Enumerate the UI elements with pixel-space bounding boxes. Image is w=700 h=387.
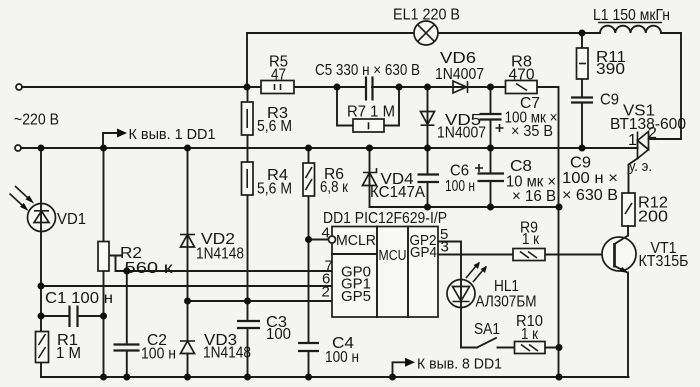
wire top mains line y=87 [22, 86, 559, 88]
svg-text:560 к: 560 к [125, 260, 174, 277]
svg-text:1N4148: 1N4148 [203, 345, 251, 362]
wire GP1 pin6 line [41, 285, 332, 287]
svg-text:5,6 М: 5,6 М [257, 181, 292, 198]
wire R11/C9 column [581, 33, 583, 148]
svg-text:C8: C8 [510, 158, 532, 175]
wire VD4 column [369, 148, 371, 207]
resistor R1 [36, 332, 82, 363]
svg-text:DD1 PIC12F629-I/P: DD1 PIC12F629-I/P [323, 210, 447, 227]
capacitor C5 [315, 62, 420, 101]
label К выв. 8 DD1 [393, 356, 503, 378]
svg-text:К выв. 8 DD1: К выв. 8 DD1 [417, 356, 502, 373]
svg-text:2: 2 [648, 125, 657, 142]
label К выв. 1 DD1 [103, 126, 216, 148]
capacitor C2 [114, 332, 177, 363]
svg-text:КТ315Б: КТ315Б [639, 253, 689, 270]
wire common column x=559 [558, 87, 560, 377]
capacitor C4 [298, 335, 359, 366]
svg-text:2: 2 [322, 284, 330, 301]
svg-text:100 н: 100 н [141, 346, 176, 363]
wire VD1/R1 column [40, 148, 42, 377]
capacitor C7 [480, 95, 558, 140]
wire GP4 pin3 to base [438, 254, 612, 256]
resistor R6 [303, 163, 349, 196]
svg-text:C1 100 н: C1 100 н [45, 290, 113, 307]
switch SA1 [474, 321, 500, 348]
svg-text:390: 390 [596, 61, 625, 78]
svg-text:6,8 к: 6,8 к [320, 179, 349, 196]
svg-text:47: 47 [271, 67, 286, 84]
resistor R4 [242, 162, 293, 198]
wire C2 column [126, 271, 128, 377]
junctions on top mains line [244, 84, 495, 91]
svg-text:L1 150 мкГн: L1 150 мкГн [593, 7, 670, 24]
svg-text:VD6: VD6 [440, 50, 476, 67]
junctions on C1 row [38, 313, 108, 320]
svg-text:1 к: 1 к [521, 326, 539, 343]
triac VS1 [610, 103, 686, 194]
resistor R9 [513, 220, 545, 261]
wire riser to lamp line [246, 33, 248, 87]
resistor R2 [98, 242, 174, 278]
svg-text:5,6 М: 5,6 М [257, 118, 292, 135]
diode VD6 [435, 50, 484, 93]
diode VD2 [180, 231, 244, 263]
junctions on bottom common rail [100, 374, 563, 381]
wire C1 row [41, 315, 104, 317]
capacitor C9 (filter) [571, 92, 619, 109]
svg-text:470: 470 [509, 67, 535, 84]
junction on lamp line (L1/R11 node) [579, 30, 586, 37]
capacitor C8 [475, 158, 556, 205]
wire VD2/VD3 column [187, 148, 189, 377]
LED HL1 [447, 262, 537, 311]
svg-text:1 М: 1 М [56, 345, 81, 362]
resistor R8 [506, 54, 538, 94]
resistor R11 [577, 48, 627, 79]
resistor R5 [261, 54, 294, 94]
wire R3/R4/C3 column [247, 87, 249, 377]
wire lamp line y=33 [247, 32, 681, 34]
junctions on mid rail [424, 204, 563, 211]
resistor R10 [515, 313, 546, 354]
svg-text:× 630 В: × 630 В [562, 187, 618, 204]
svg-text:1N4148: 1N4148 [196, 246, 244, 263]
photodiode VD1 [10, 186, 87, 232]
capacitor C6 [418, 163, 476, 196]
svg-text:4: 4 [322, 225, 330, 242]
zener VD4 [363, 168, 426, 201]
svg-text:у. э.: у. э. [629, 158, 652, 175]
wire GP0 pin7 line [127, 270, 332, 272]
svg-text:200: 200 [638, 209, 668, 226]
resistor R12 [622, 193, 668, 226]
terminal X1 (~220 V line 1) [16, 84, 22, 90]
svg-text:100 н: 100 н [325, 349, 359, 366]
junction node GP0 wire [123, 268, 130, 275]
wire right edge to triac MT2 [649, 33, 682, 139]
diode VD5 [421, 112, 487, 142]
svg-text:3: 3 [441, 239, 449, 256]
wire MCLR pin4 line [309, 239, 330, 241]
resistor R7 (parallel branch) [337, 87, 399, 132]
wire SA1/R10 row [461, 347, 559, 349]
wire bottom rail y=377 [41, 376, 629, 378]
wire Vdd rail y=148 [21, 147, 638, 149]
wire C7/C8 column [490, 87, 492, 207]
lamp EL1 [393, 7, 460, 46]
wire R6/C4 column [308, 148, 310, 377]
svg-text:1: 1 [628, 132, 637, 149]
svg-text:VD1: VD1 [57, 211, 86, 228]
svg-text:MCU: MCU [379, 247, 407, 264]
transistor VT1 [602, 226, 689, 377]
junction node R10/SA1 [556, 344, 563, 351]
wire R2 tap [109, 256, 127, 272]
diode VD3 [180, 332, 251, 362]
svg-text:C6: C6 [450, 163, 469, 180]
svg-text:MCLR: MCLR [336, 232, 376, 249]
svg-text:× 16 В: × 16 В [512, 188, 556, 205]
inductor L1 [593, 7, 670, 33]
svg-text:GP4: GP4 [410, 244, 437, 261]
junction node MCLR [305, 236, 312, 243]
wire GP2 pin5 to HL1 [438, 242, 461, 348]
svg-text:100 н ×: 100 н × [562, 170, 618, 187]
wire mid rail y=207 [370, 206, 560, 208]
svg-text:100 н: 100 н [445, 178, 475, 195]
wire VD5/C6 column [427, 87, 429, 207]
svg-text:1N4007: 1N4007 [437, 125, 486, 142]
svg-text:SA1: SA1 [474, 321, 500, 338]
svg-text:HL1: HL1 [494, 278, 519, 295]
svg-text:EL1 220 В: EL1 220 В [393, 7, 460, 24]
wire GP5 pin2 line [188, 300, 333, 302]
wire R2 column [103, 148, 105, 377]
svg-text:АЛ307БМ: АЛ307БМ [476, 294, 537, 311]
capacitor C9 value label [562, 155, 618, 205]
svg-text:C9: C9 [600, 92, 619, 109]
svg-text:1N4007: 1N4007 [435, 66, 484, 83]
svg-text:GP5: GP5 [341, 288, 371, 305]
junctions on Vdd rail [38, 145, 586, 152]
capacitor C1 [45, 290, 113, 327]
IC DD1 [322, 210, 449, 317]
svg-text:КС147А: КС147А [370, 184, 425, 201]
svg-text:R7 1 М: R7 1 М [347, 104, 395, 121]
svg-text:C9: C9 [570, 155, 591, 172]
svg-text:1 к: 1 к [522, 231, 540, 248]
junctions on GP5 wire [184, 298, 251, 305]
resistor R3 [242, 102, 293, 135]
svg-text:100: 100 [266, 326, 291, 343]
svg-text:× 35 В: × 35 В [511, 123, 553, 140]
svg-text:C5 330 н × 630 В: C5 330 н × 630 В [315, 62, 420, 79]
junction node GP1 wire [38, 283, 45, 290]
svg-text:~220 В: ~220 В [14, 112, 59, 129]
terminal X2 (~220 V line 2) [15, 145, 21, 151]
svg-text:К выв. 1 DD1: К выв. 1 DD1 [129, 126, 216, 143]
capacitor C3 [237, 314, 291, 343]
